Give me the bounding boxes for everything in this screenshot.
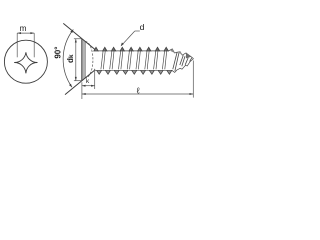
svg-text:d: d — [140, 22, 145, 32]
svg-text:dk: dk — [66, 54, 75, 63]
svg-text:m: m — [20, 24, 27, 33]
svg-text:k: k — [86, 78, 90, 85]
svg-text:ℓ: ℓ — [136, 86, 140, 96]
svg-text:90°: 90° — [53, 47, 62, 59]
